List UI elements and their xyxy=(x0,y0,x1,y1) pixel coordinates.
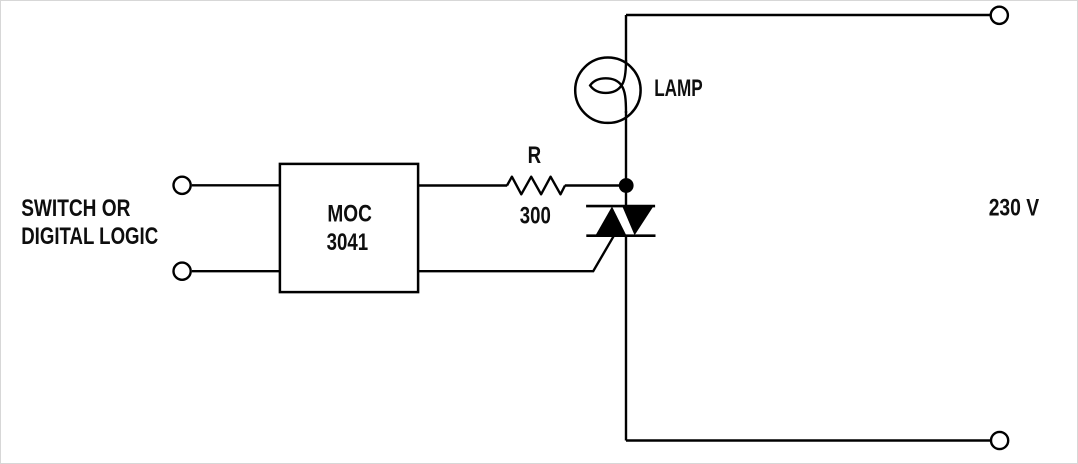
svg-text:3041: 3041 xyxy=(327,229,369,256)
wire T1 to U1 pin1 xyxy=(192,184,280,186)
triac Q1 right triangle (points down) xyxy=(622,206,653,235)
svg-text:230 V: 230 V xyxy=(989,195,1039,222)
wire gate of Q1 to U1 pin4 xyxy=(418,236,614,272)
node A junction dot xyxy=(619,178,634,193)
terminal T4 bottom-right xyxy=(991,432,1008,449)
svg-text:MOC: MOC xyxy=(327,201,372,228)
wire resistor R to node A xyxy=(565,184,621,186)
triac Q1 left triangle (points up) xyxy=(595,207,626,236)
wire bottom rail to terminal T4 xyxy=(626,439,992,441)
lamp wire bow through filament xyxy=(622,60,627,113)
terminal T1 top-left input xyxy=(174,177,191,194)
terminal T3 top-right xyxy=(991,7,1008,24)
svg-text:300: 300 xyxy=(520,203,551,230)
triac Q1 MT2 bar xyxy=(586,205,655,208)
triac Q1 MT1 bar xyxy=(586,234,655,237)
wire top rail to terminal T3 xyxy=(626,14,992,16)
optocoupler U1 MOC3041 box xyxy=(280,164,418,292)
svg-text:DIGITAL LOGIC: DIGITAL LOGIC xyxy=(21,223,158,250)
wire top: node A up to lamp, lamp to top rail corner xyxy=(625,111,627,186)
svg-text:R: R xyxy=(528,142,542,169)
resistor R 300 zigzag xyxy=(507,177,565,195)
lamp circle xyxy=(575,57,640,122)
svg-text:LAMP: LAMP xyxy=(654,75,703,102)
wire T2 to U1 pin2 xyxy=(192,270,280,272)
terminal T2 bottom-left input xyxy=(174,263,191,280)
wire node A down to triac MT2 bar xyxy=(625,186,627,207)
wire U1 pin6 to resistor R xyxy=(418,184,507,186)
lamp filament loop xyxy=(590,78,621,93)
wire triac MT1 bar down to bottom rail xyxy=(625,236,627,441)
svg-text:SWITCH OR: SWITCH OR xyxy=(21,195,130,222)
